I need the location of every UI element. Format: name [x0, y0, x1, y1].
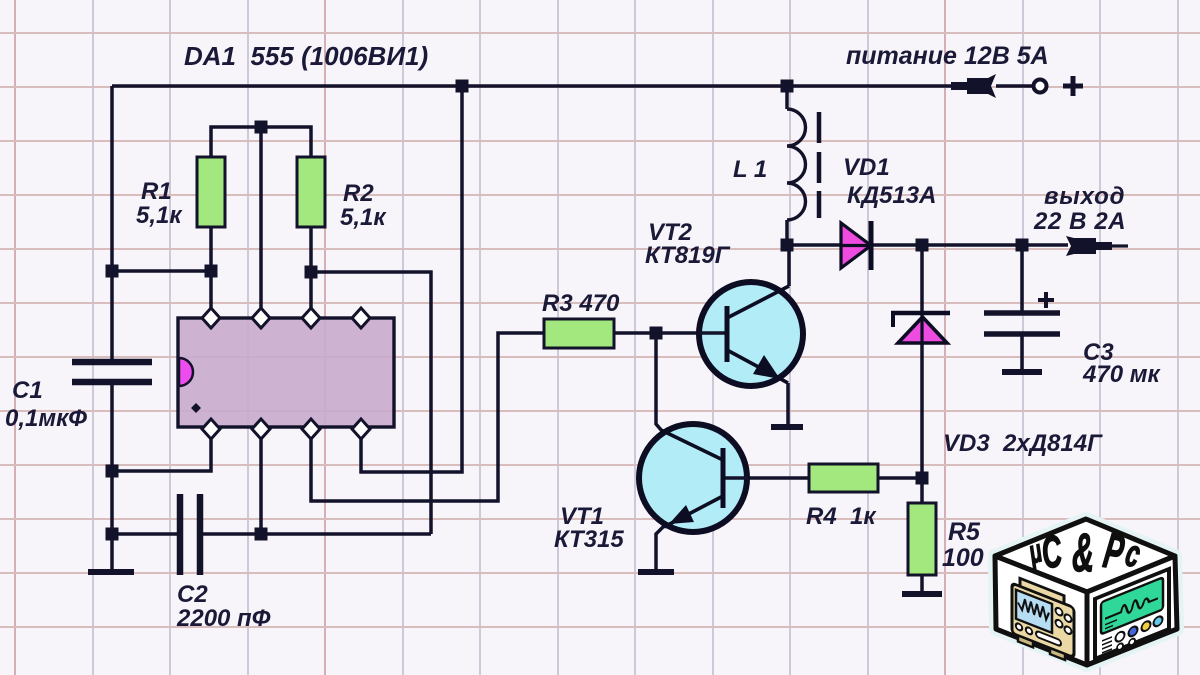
svg-text:R2: R2 — [343, 180, 374, 207]
ground left rail — [88, 569, 134, 575]
svg-text:VD3 2хД814Г: VD3 2хД814Г — [943, 430, 1103, 457]
svg-text:R3 470: R3 470 — [542, 290, 620, 317]
wire VT1 emitter down — [656, 526, 664, 570]
svg-text:L 1: L 1 — [733, 156, 767, 183]
svg-text:0,1мкФ: 0,1мкФ — [5, 405, 87, 432]
node R2 bottom — [305, 266, 318, 279]
node C2 left rail — [106, 528, 119, 541]
wire VD1 anode — [787, 243, 841, 247]
node left rail y271 — [106, 265, 119, 278]
wire R3 to base node — [614, 331, 699, 335]
svg-text:100: 100 — [942, 544, 984, 572]
wire output tail — [1112, 244, 1128, 247]
node pin4 VCC — [456, 80, 469, 93]
capacitor C2 — [180, 494, 200, 575]
wire pin6 to C2 right — [311, 272, 431, 534]
zener VD3 — [891, 313, 950, 345]
diode VD1 — [841, 221, 871, 270]
svg-text:R4 1к: R4 1к — [806, 503, 877, 530]
pin top 5 — [252, 308, 270, 328]
output connector arrow — [1066, 236, 1112, 256]
ground R5 — [902, 591, 942, 597]
wire VT1 base to R4 — [748, 476, 809, 480]
svg-text:питание 12В 5А: питание 12В 5А — [846, 42, 1049, 70]
svg-text:DA1 555 (1006ВИ1): DA1 555 (1006ВИ1) — [184, 41, 428, 71]
wire power terminal link — [996, 84, 1032, 88]
node pin1 left rail — [106, 465, 119, 478]
resistor R5 — [908, 503, 936, 575]
L1 core dashes — [817, 112, 822, 218]
node VD3 top — [916, 239, 929, 252]
node R4 R5 VD3 — [916, 472, 929, 485]
wire pin4 to VCC — [361, 86, 462, 472]
node L1 VCC — [781, 80, 794, 93]
svg-text:22 В 2А: 22 В 2А — [1033, 208, 1126, 235]
svg-text:470 мк: 470 мк — [1082, 361, 1161, 388]
node R1 bottom — [205, 265, 218, 278]
svg-text:КД513А: КД513А — [847, 182, 936, 209]
node top bus R1R2 — [255, 121, 268, 134]
wire output rail — [871, 243, 1068, 247]
wire pin3 output — [311, 333, 544, 501]
resistor R1 — [197, 157, 225, 227]
svg-text:5,1к: 5,1к — [136, 202, 183, 229]
ground C3 — [1002, 369, 1042, 375]
logo cube — [995, 519, 1177, 665]
node C2 pin2 — [255, 528, 268, 541]
inductor L1 — [787, 109, 806, 220]
wire pin5 drop from top bus — [259, 127, 263, 316]
ground VT2 emitter — [771, 424, 803, 430]
wire C3 bottom lead — [1020, 334, 1024, 370]
pin top 7 — [202, 308, 220, 328]
wire pin2 drop — [259, 429, 263, 534]
pin bottom 3 — [302, 419, 320, 439]
node base R3 — [650, 327, 663, 340]
wire L1 bottom lead — [785, 220, 789, 245]
resistor R3 — [544, 319, 614, 348]
resistor R4 — [809, 464, 878, 492]
wire R2 bottom to pin6 — [309, 227, 313, 316]
pin bottom 1 — [202, 419, 220, 439]
power plus sign — [1063, 76, 1083, 96]
svg-text:выход: выход — [1044, 183, 1125, 210]
capacitor C1 — [72, 362, 152, 382]
wire C3 top lead — [1020, 245, 1024, 313]
wire R1R2 top bus — [211, 127, 311, 157]
node C3 top — [1016, 239, 1029, 252]
pin bottom 2 — [252, 419, 270, 439]
pin top 6 — [302, 308, 320, 328]
wire node row y271 — [112, 269, 211, 273]
power terminal circle — [1034, 80, 1047, 93]
wire VT2 emitter down — [786, 383, 790, 424]
wire left rail upper — [110, 86, 114, 360]
wire left rail lower — [110, 384, 114, 572]
wire VD3 top lead — [920, 245, 924, 311]
wire L1 top lead — [785, 86, 789, 109]
capacitor C3 — [984, 313, 1060, 334]
svg-text:R5: R5 — [948, 518, 981, 546]
wire R4 to node — [878, 476, 922, 480]
IC notch — [179, 358, 193, 386]
wire R1 bottom to pin7 — [209, 227, 213, 316]
svg-text:5,1к: 5,1к — [340, 204, 387, 231]
wire C2 line — [112, 532, 431, 536]
IC pin1 marker — [191, 403, 201, 413]
svg-text:&: & — [1072, 523, 1094, 583]
wire VD3 bottom lead — [920, 344, 924, 478]
power input connector arrow — [951, 74, 996, 98]
svg-text:2200 пФ: 2200 пФ — [176, 605, 271, 632]
node VT2 collector L1 — [781, 239, 794, 252]
wire top VCC rail — [112, 84, 951, 88]
resistor R2 — [297, 157, 325, 227]
svg-text:КТ315: КТ315 — [554, 526, 624, 553]
wire VT2 collector up — [787, 245, 791, 286]
IC DA1 body — [178, 318, 394, 427]
pin top 8 — [352, 308, 370, 328]
transistor VT2 — [699, 282, 803, 386]
svg-text:R1: R1 — [141, 178, 172, 205]
pin bottom 4 — [352, 419, 370, 439]
svg-text:C2: C2 — [177, 581, 208, 608]
svg-text:КТ819Г: КТ819Г — [645, 242, 731, 269]
ground VT1 emitter — [638, 569, 674, 575]
transistor VT1 — [639, 424, 748, 532]
wire R5 leads — [920, 478, 924, 592]
wire node to VT1 collector — [656, 333, 662, 431]
wire pin1 to left rail — [112, 429, 211, 471]
svg-text:VD1: VD1 — [843, 154, 890, 181]
svg-text:C1: C1 — [12, 377, 43, 404]
C3 plus sign — [1038, 292, 1054, 308]
